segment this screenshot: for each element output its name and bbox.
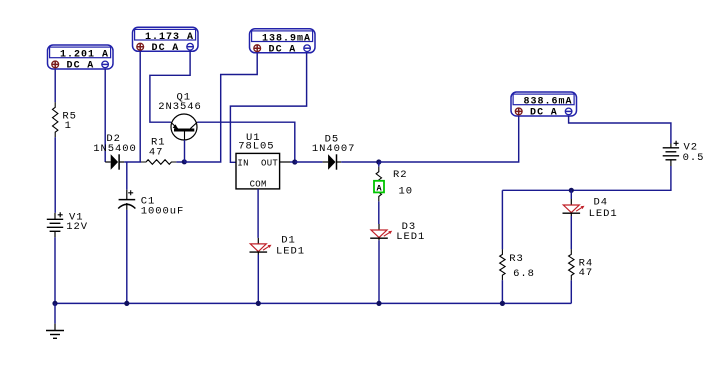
- regulator U1 78L05 box: [236, 153, 280, 189]
- wire M4- to V2: [569, 116, 671, 144]
- svg-text:12V: 12V: [66, 221, 88, 233]
- svg-text:0.5: 0.5: [683, 152, 705, 164]
- wire D2 to R1: [124, 161, 141, 163]
- wire corner to R3: [501, 190, 503, 249]
- svg-text:R2: R2: [393, 169, 408, 181]
- ammeter M2 + terminal: [137, 43, 144, 50]
- svg-text:DC: DC: [269, 44, 283, 55]
- wire V1 to ground rail: [54, 237, 56, 303]
- wire ground rail: [55, 302, 571, 304]
- battery V2: [663, 141, 679, 166]
- ground symbol: [46, 324, 64, 339]
- transistor Q1 2N3546: [171, 114, 197, 140]
- junction rail D1: [256, 301, 261, 306]
- wire D4 to R4: [570, 216, 572, 249]
- ammeter M1 - terminal: [102, 61, 109, 68]
- ammeter M1 body: [48, 45, 114, 69]
- probe A on R2: [374, 181, 384, 194]
- wire Q1 collector to OUT node: [197, 122, 294, 162]
- wire rail to ground: [54, 303, 56, 323]
- junction OUT node: [292, 159, 297, 164]
- svg-text:1N4007: 1N4007: [312, 143, 356, 155]
- svg-text:OUT: OUT: [261, 159, 278, 169]
- svg-text:A: A: [376, 184, 382, 194]
- wire COM down: [257, 189, 259, 238]
- svg-text:LED1: LED1: [396, 231, 425, 243]
- svg-text:R3: R3: [509, 253, 524, 265]
- svg-text:DC: DC: [152, 43, 166, 54]
- svg-text:1000uF: 1000uF: [141, 206, 185, 218]
- wire OUT to node: [290, 161, 295, 163]
- svg-text:A: A: [289, 44, 295, 55]
- junction rail R3: [500, 301, 505, 306]
- wire node to D4: [570, 190, 572, 199]
- wire base node to M3+ corner: [184, 53, 257, 162]
- wire node to M4+: [379, 116, 519, 162]
- resistor R2 symbol: [376, 167, 381, 202]
- pin U1 OUT stub: [280, 161, 290, 163]
- svg-text:47: 47: [579, 267, 594, 279]
- svg-text:1.201 A: 1.201 A: [60, 50, 109, 61]
- wire M1- down to D2: [104, 69, 106, 162]
- junction rail V1: [52, 301, 57, 306]
- svg-text:838.6mA: 838.6mA: [523, 97, 572, 108]
- battery V1: [47, 212, 63, 237]
- wire M2+ down to node: [139, 51, 141, 162]
- svg-text:1.173 A: 1.173 A: [145, 32, 194, 43]
- svg-text:78L05: 78L05: [238, 140, 274, 152]
- wire D1 to rail: [257, 255, 259, 304]
- svg-text:IN: IN: [237, 159, 248, 169]
- ammeter M2 body: [133, 27, 199, 51]
- wire V2 to R3 corner: [502, 166, 671, 190]
- svg-text:A: A: [172, 43, 178, 54]
- wire D5 to node: [341, 161, 379, 163]
- svg-text:DC: DC: [530, 108, 544, 119]
- junction D4 node: [569, 188, 574, 193]
- wire R1 to base node: [176, 161, 184, 163]
- wire node to R2: [378, 162, 380, 167]
- wire M3- to U1 IN: [230, 53, 306, 163]
- svg-text:138.9mA: 138.9mA: [262, 33, 311, 44]
- wire R3 to rail: [501, 280, 503, 303]
- ammeter M3 - terminal: [304, 45, 311, 52]
- LED D3: [370, 224, 392, 240]
- svg-text:A: A: [551, 108, 557, 119]
- ammeter M4 body: [511, 92, 577, 116]
- svg-text:47: 47: [149, 147, 164, 159]
- resistor R1 symbol: [141, 160, 176, 165]
- svg-text:A: A: [87, 61, 93, 72]
- svg-text:1: 1: [65, 120, 72, 132]
- junction D5 node: [376, 159, 381, 164]
- wire R5 to V1: [54, 137, 56, 213]
- svg-text:2N3546: 2N3546: [158, 101, 202, 113]
- junction base node: [182, 159, 187, 164]
- wire D3 to rail: [378, 240, 380, 303]
- wire R2 to D3: [378, 201, 380, 224]
- ammeter M3 body: [250, 29, 316, 53]
- svg-text:COM: COM: [250, 179, 267, 189]
- wire R4 to rail: [570, 280, 572, 303]
- capacitor C1: [118, 190, 135, 210]
- svg-text:10: 10: [399, 186, 414, 198]
- svg-text:LED1: LED1: [276, 245, 305, 257]
- wire C1 to rail: [126, 210, 128, 304]
- ammeter M4 + terminal: [515, 108, 522, 115]
- LED D1: [250, 238, 272, 255]
- wire node to D5: [295, 161, 323, 163]
- wire M2- to Q1 emitter: [150, 51, 190, 122]
- resistor R4 symbol: [569, 249, 574, 280]
- resistor R3 symbol: [500, 249, 505, 280]
- svg-text:LED1: LED1: [589, 208, 618, 220]
- ammeter M1 + terminal: [52, 61, 59, 68]
- svg-text:6.8: 6.8: [513, 268, 535, 280]
- svg-text:D4: D4: [594, 197, 609, 209]
- wire M1+ to R5: [54, 69, 56, 102]
- svg-text:DC: DC: [67, 61, 81, 72]
- wire node to C1: [126, 162, 128, 190]
- svg-text:1N5400: 1N5400: [93, 143, 137, 155]
- ammeter M4 - terminal: [565, 108, 572, 115]
- junction rail D3: [376, 301, 381, 306]
- junction rail C1: [124, 301, 129, 306]
- resistor R5 symbol: [53, 102, 58, 137]
- LED D4: [563, 199, 585, 216]
- wire Q1 base down: [184, 140, 186, 162]
- diode D2 1N5400: [105, 154, 124, 169]
- diode D5 1N4007: [323, 154, 342, 169]
- ammeter M2 - terminal: [187, 43, 194, 50]
- ammeter M3 + terminal: [254, 45, 261, 52]
